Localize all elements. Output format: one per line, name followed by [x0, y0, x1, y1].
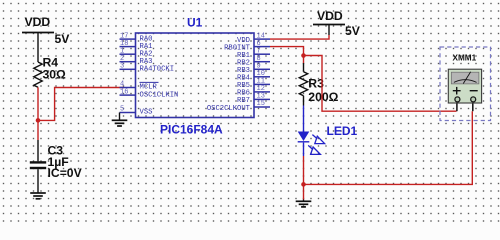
power symbol VDD (right rail): [313, 24, 345, 26]
wire R3 to LED1: [303, 96, 305, 106]
pin 10 RB4: [237, 70, 270, 83]
wire node A to C3: [37, 120, 39, 140]
svg-text:PIC16F84A: PIC16F84A: [160, 123, 223, 137]
power symbol VDD (left rail): [22, 32, 54, 34]
pin 6 RB0INT: [224, 40, 270, 53]
svg-text:15: 15: [257, 100, 265, 108]
svg-text:IC=0V: IC=0V: [48, 166, 83, 180]
wire node B to R3: [303, 56, 305, 64]
ground (below C3): [30, 193, 46, 199]
svg-text:VSS: VSS: [140, 109, 153, 117]
wire node B to XMM1 + terminal: [304, 56, 457, 112]
pin 15 OSC2CLKOUT: [207, 100, 270, 113]
svg-text:5: 5: [120, 106, 124, 114]
junction node C: [301, 182, 306, 187]
svg-text:5V: 5V: [55, 32, 71, 46]
wire R4 bottom to node A: [37, 87, 39, 120]
pin 13 RB7: [237, 93, 270, 106]
pin 16 OSC1CLKIN: [120, 88, 179, 99]
wire VDD rail down: [328, 25, 330, 36]
pin 18 RA1: [120, 40, 153, 51]
wire node A to MCLR pin 4: [38, 88, 124, 121]
LED LED1: [298, 106, 310, 157]
pin 8 RB2: [237, 55, 270, 68]
junction node A: [36, 118, 41, 123]
wire VDD rail to R4 top: [37, 33, 39, 63]
svg-text:RA4T0CKI: RA4T0CKI: [140, 66, 175, 74]
pin 1 RA2: [120, 47, 153, 58]
pin 12 RB6: [237, 85, 270, 98]
pin 9 RB3: [237, 63, 270, 76]
pin 2 RA3: [120, 55, 153, 66]
svg-text:XMM1: XMM1: [453, 54, 477, 63]
pin 7 RB1: [237, 47, 270, 60]
svg-text:OSC1CLKIN: OSC1CLKIN: [140, 91, 179, 99]
svg-text:30Ω: 30Ω: [43, 68, 67, 82]
wire node C to ground: [303, 184, 305, 199]
wire pin 14 to VDD rail: [270, 35, 329, 39]
ground (below LED1): [296, 201, 312, 207]
junction node B: [301, 53, 306, 58]
wire VSS pin 5 to ground: [119, 113, 121, 121]
wire LED1 to node C: [303, 156, 305, 184]
pin 3 RA4T0CKI: [120, 63, 175, 74]
wire pin 6 to node B: [270, 47, 304, 56]
resistor R3: [299, 72, 307, 96]
pin 14 VDD: [237, 32, 270, 45]
svg-text:OSC2CLKOUT: OSC2CLKOUT: [207, 105, 251, 113]
svg-text:3: 3: [120, 63, 124, 71]
pin 5 VSS: [120, 106, 153, 117]
svg-text:LED1: LED1: [327, 124, 358, 138]
wire node C to XMM1 - terminal: [304, 111, 473, 184]
resistor R4: [34, 62, 42, 87]
pin 17 RA0: [120, 32, 153, 43]
multimeter XMM1 selection box: [440, 47, 491, 121]
svg-text:16: 16: [120, 88, 128, 96]
svg-text:200Ω: 200Ω: [308, 90, 338, 104]
pin 11 RB5: [237, 78, 270, 91]
multimeter XMM1 icon: [448, 69, 481, 103]
capacitor C3: [30, 161, 46, 169]
svg-text:VDD: VDD: [25, 15, 51, 29]
wire C3 to ground: [37, 169, 39, 193]
svg-text:VDD: VDD: [317, 9, 343, 23]
ground (at VSS pin): [112, 120, 128, 126]
svg-text:5V: 5V: [345, 24, 361, 38]
svg-text:U1: U1: [187, 16, 203, 30]
pin 4 MCLR: [120, 81, 159, 92]
IC U1 PIC16F84A body: [136, 33, 255, 118]
